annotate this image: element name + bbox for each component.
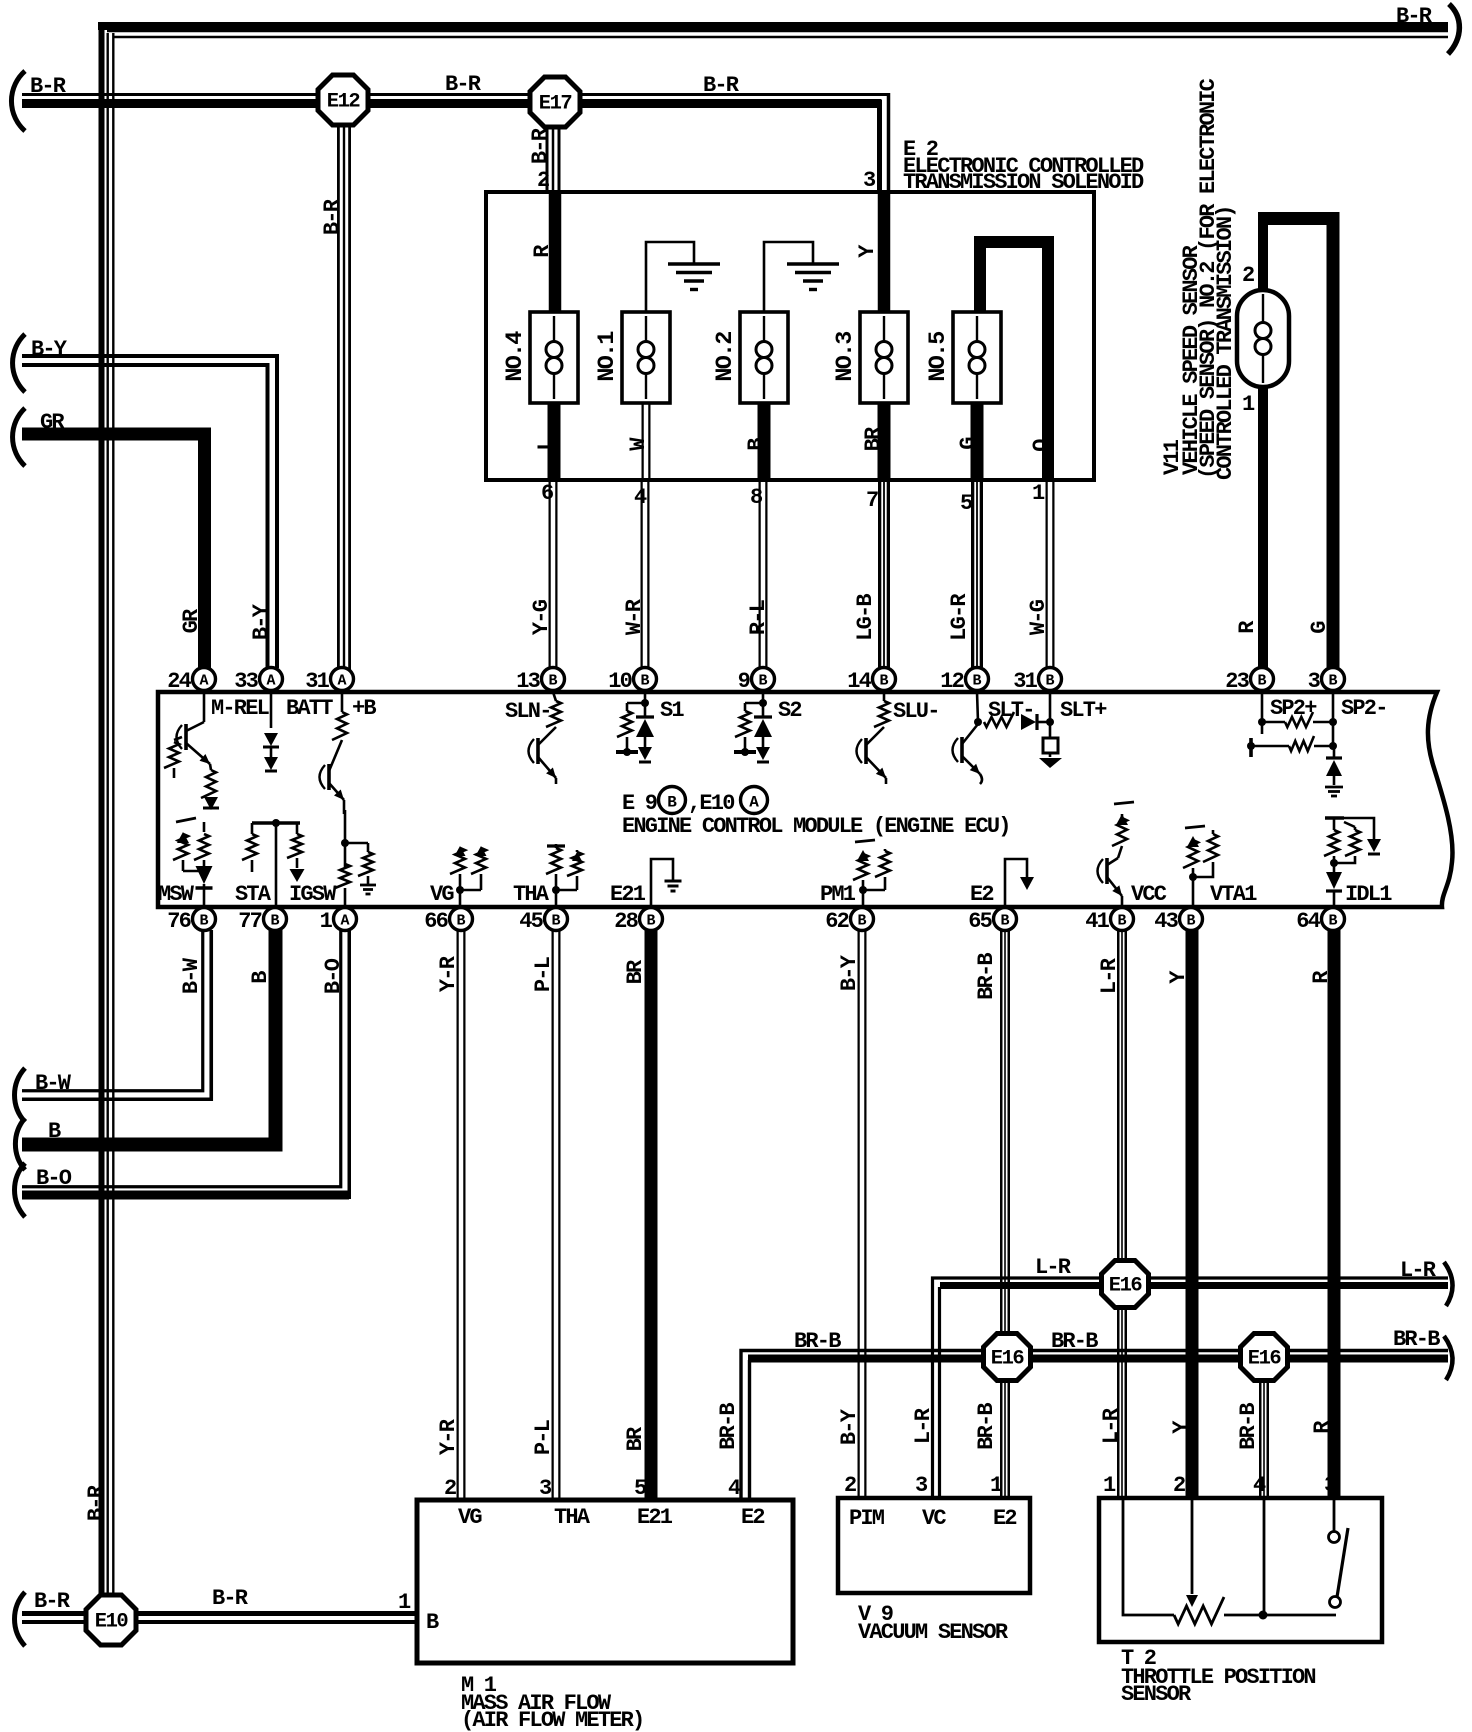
svg-text:4: 4 (1253, 1473, 1266, 1498)
svg-text:1: 1 (1103, 1473, 1116, 1498)
svg-text:B: B (1045, 673, 1054, 690)
svg-text:3: 3 (863, 168, 876, 193)
svg-text:P-L: P-L (531, 1419, 556, 1455)
svg-text:A: A (340, 913, 349, 930)
svg-text:28: 28 (614, 909, 638, 934)
svg-text:+B: +B (352, 696, 376, 721)
diode S1 (up) (644, 703, 647, 716)
wire E21 (651, 859, 673, 905)
svg-text:5: 5 (634, 1476, 647, 1501)
ECU bottom pin 77(B) (264, 908, 287, 931)
ECU bottom pin 66(B) (450, 908, 473, 931)
svg-text:BR-B: BR-B (974, 1403, 999, 1450)
wire Y-G box pin6 to ECU 13(B) (549, 480, 558, 670)
arrow IDL1 branch (1367, 839, 1381, 852)
wire B ECU 77(B) to left edge (22, 930, 276, 1145)
transistor SLN- (536, 738, 540, 764)
wiper T2 pin2 (1191, 1500, 1194, 1594)
svg-text:1: 1 (1242, 392, 1255, 417)
ECU bottom pin 43(B) (1180, 908, 1203, 931)
svg-text:R-L: R-L (746, 599, 771, 635)
svg-text:B: B (1328, 913, 1337, 930)
svg-text:BR-B: BR-B (716, 1403, 741, 1450)
arrow S1 ground (638, 747, 652, 760)
wire GR from left edge to ECU pin 24(A) (22, 434, 205, 668)
terminal bar S1 resistor (616, 750, 638, 754)
svg-text:E12: E12 (327, 91, 361, 114)
svg-text:E10: E10 (95, 1611, 129, 1634)
wire R ECU 64(B) to T2 pin3 (1328, 930, 1341, 1500)
svg-text:A: A (266, 673, 275, 690)
wire W-G box pin1 to ECU 31(B) (1046, 480, 1055, 670)
svg-text:THA: THA (513, 882, 550, 907)
svg-text:VG: VG (430, 882, 454, 907)
vehicle speed sensor V11 body (1237, 290, 1289, 387)
wire R-L box pin8 to ECU 9(B) (759, 480, 768, 670)
connector circle B (659, 787, 686, 814)
solenoid bottom wire W (NO.1) (642, 402, 651, 482)
wire THA link (556, 889, 577, 892)
wire IDL1 branch (1344, 818, 1374, 840)
svg-text:L-R: L-R (1099, 1407, 1124, 1444)
svg-text:E16: E16 (1248, 1348, 1282, 1371)
ECU top pin 9(B) (752, 668, 775, 691)
svg-text:SLU-: SLU- (893, 699, 939, 724)
ECU top pin 3(B) (1322, 668, 1345, 691)
solenoid bottom wire L (NO.4) (548, 400, 561, 482)
wire B-R top second line (107, 30, 1448, 39)
arrow VCC top (1116, 814, 1128, 825)
resistor SP2 lower (1251, 745, 1289, 748)
svg-text:VC: VC (922, 1506, 946, 1531)
throttle position sensor box T2 (1099, 1498, 1382, 1642)
arrow S2 ground (756, 747, 770, 760)
svg-text:B-R: B-R (528, 127, 553, 164)
arrow M-REL to ground (210, 798, 213, 800)
svg-text:L-R: L-R (1035, 1255, 1072, 1280)
wire SP2- drop (1332, 692, 1335, 748)
left bracket B-W (15, 1068, 25, 1122)
svg-text:BR: BR (623, 1426, 648, 1451)
wire MSW link (183, 870, 204, 873)
ECU bottom pin 62(B) (851, 908, 874, 931)
svg-text:IDL1: IDL1 (1345, 882, 1392, 907)
vacuum sensor box V9 (838, 1498, 1030, 1593)
left bracket B (15, 1118, 25, 1170)
svg-text:S2: S2 (778, 698, 801, 723)
svg-text:B-O: B-O (36, 1166, 72, 1191)
svg-text:12: 12 (940, 669, 963, 694)
arrow E2 ground (1020, 877, 1034, 890)
svg-text:3: 3 (915, 1473, 928, 1498)
svg-text:B: B (744, 438, 769, 451)
left bracket B-Y (13, 334, 25, 392)
svg-text:33: 33 (234, 669, 258, 694)
connector circle A (741, 787, 768, 814)
ECU top pin 10(B) (634, 668, 657, 691)
svg-text:4: 4 (634, 485, 647, 510)
wire T2 pin1 internal (1123, 1500, 1174, 1615)
junction S2 (762, 692, 765, 703)
svg-text:PM1: PM1 (820, 882, 856, 907)
svg-text:BR: BR (861, 426, 886, 451)
svg-text:SP2-: SP2- (1341, 696, 1387, 721)
svg-text:BR-B: BR-B (974, 953, 999, 1000)
svg-text:E16: E16 (991, 1348, 1025, 1371)
terminal bar SP2 lower left (1249, 738, 1253, 757)
svg-text:2: 2 (1173, 1473, 1185, 1498)
wire Y inside box to solenoid NO.3 (878, 190, 891, 316)
svg-text:Y-R: Y-R (436, 955, 461, 992)
continuation hook BR-B right (1444, 1336, 1453, 1380)
wire B-Y from left edge to ECU pin 33(A) (22, 356, 277, 668)
svg-text:31: 31 (305, 669, 329, 694)
resistor IGSW branch (358, 852, 373, 876)
wire BR-B horizontal from MAF E2 to right edge (741, 1351, 1448, 1501)
wire B-R left vertical run (thick line) (99, 22, 105, 1596)
svg-text:B: B (548, 673, 557, 690)
svg-text:B-R: B-R (84, 1484, 109, 1521)
svg-text:1: 1 (1032, 481, 1045, 506)
resistor S1 (627, 702, 645, 705)
svg-text:VTA1: VTA1 (1210, 882, 1257, 907)
wire T2 pin3 internal (1333, 1500, 1336, 1531)
svg-text:B: B (646, 913, 655, 930)
ECU bottom pin 76(B) (193, 908, 216, 931)
wire O jumper from NO.5 top to box pin 1 (980, 242, 1048, 482)
ECU top pin 24(A) (193, 668, 216, 691)
transistor VCC (1105, 858, 1109, 884)
solenoid NO.5 (953, 312, 1001, 403)
svg-text:B-Y: B-Y (249, 603, 274, 640)
wire LG-B box pin7 to ECU 14(B) (878, 480, 890, 670)
svg-text:E2: E2 (993, 1506, 1016, 1531)
resistor VTA1 right (1212, 830, 1215, 834)
svg-text:G: G (1307, 621, 1332, 634)
svg-text:31: 31 (1013, 669, 1037, 694)
svg-text:B: B (1257, 673, 1266, 690)
svg-text:B: B (1328, 673, 1337, 690)
resistor IDL1 main (1324, 830, 1339, 856)
resistor VCC (1121, 814, 1124, 818)
svg-text:B: B (270, 913, 279, 930)
svg-text:LG-B: LG-B (853, 594, 878, 641)
junction connector E10 (86, 1595, 136, 1645)
resistor MSW left (173, 834, 188, 860)
wire B-Y ECU 62(B) to V9 PIM (858, 930, 867, 1500)
svg-text:B-R: B-R (212, 1586, 249, 1611)
potentiometer T2 (1174, 1597, 1224, 1624)
svg-text:8: 8 (750, 485, 763, 510)
svg-text:PIM: PIM (849, 1506, 885, 1531)
ECU top pin 14(B) (873, 668, 896, 691)
ECU top pin 23(B) (1251, 668, 1274, 691)
wire PM1 link (863, 889, 885, 892)
resistor THA right (576, 850, 579, 852)
transistor SLT- (960, 737, 964, 763)
svg-text:6: 6 (541, 481, 553, 506)
ECU top pin 12(B) (966, 668, 989, 691)
solenoid bottom wire BR (NO.3) (878, 400, 891, 482)
svg-text:L-R: L-R (911, 1407, 936, 1444)
ground for NO.1 (668, 262, 720, 265)
svg-text:B-R: B-R (320, 198, 345, 235)
wire E2 (1005, 859, 1027, 905)
svg-text:E2: E2 (970, 882, 993, 907)
resistor STA left (251, 823, 254, 834)
mass air flow meter box M1 (417, 1500, 793, 1663)
svg-text:76: 76 (167, 909, 190, 934)
transistor SLU- (864, 738, 868, 764)
svg-text:IGSW: IGSW (289, 882, 337, 907)
diode MSW (196, 866, 213, 884)
wire Y ECU 43(B) to T2 pin2 (1186, 930, 1199, 1500)
svg-text:THA: THA (554, 1505, 591, 1530)
junction connector E17 (530, 77, 580, 127)
wire B-O ECU 1(A) to left edge (22, 930, 341, 1187)
svg-text:SLT+: SLT+ (1060, 698, 1107, 723)
wire L-R horizontal from V9 VC to right edge (933, 1278, 1449, 1500)
wire NO.2 ground link (764, 242, 813, 314)
svg-text:10: 10 (608, 669, 631, 694)
solenoid bottom wire G (NO.5) (971, 400, 984, 482)
wire IDL1 top bar (1325, 816, 1344, 819)
svg-text:W-R: W-R (622, 598, 647, 635)
svg-text:3: 3 (539, 1476, 552, 1501)
svg-text:B: B (758, 673, 767, 690)
resistor IGSW (335, 864, 350, 888)
svg-text:P-L: P-L (531, 956, 556, 992)
switch lever T2 (1337, 1528, 1348, 1597)
svg-text:B: B (248, 971, 273, 984)
wire BR ECU 28(B) to MAF pin5 (645, 930, 658, 1500)
solenoid NO.1 (622, 312, 670, 403)
svg-text:14: 14 (847, 669, 871, 694)
svg-text:E16: E16 (1109, 1275, 1143, 1298)
svg-text:64: 64 (1296, 909, 1320, 934)
svg-text:STA: STA (235, 882, 272, 907)
svg-text:A: A (749, 794, 759, 812)
svg-text:E17: E17 (539, 93, 572, 116)
diode SLT- (right) (1021, 714, 1036, 730)
switch contact bottom T2 (1330, 1597, 1341, 1608)
svg-text:3: 3 (1324, 1473, 1337, 1498)
svg-text:ENGINE CONTROL MODULE (ENGINE: ENGINE CONTROL MODULE (ENGINE ECU) (622, 814, 1010, 839)
svg-text:BR-B: BR-B (794, 1329, 841, 1354)
wire T2 pin4 internal (1263, 1500, 1266, 1615)
svg-text:VACUUM SENSOR: VACUUM SENSOR (858, 1620, 1009, 1645)
wire B-R left vertical run (double line) (107, 33, 115, 1596)
wire VG link (460, 889, 481, 892)
svg-text:NO.5: NO.5 (925, 332, 952, 382)
resistor S2 (745, 702, 763, 705)
svg-text:2: 2 (1242, 263, 1254, 288)
svg-text:W-G: W-G (1026, 599, 1051, 635)
svg-text:Y-G: Y-G (529, 599, 554, 635)
wire W-R box pin4 to ECU 10(B) (641, 480, 650, 670)
ground E21 (665, 880, 682, 883)
svg-text:LG-R: LG-R (947, 593, 972, 641)
svg-text:TRANSMISSION SOLENOID: TRANSMISSION SOLENOID (903, 170, 1144, 195)
wire STA rail (252, 821, 300, 824)
svg-text:B: B (667, 794, 677, 812)
svg-text:G: G (956, 437, 981, 450)
wire SLT+ pin to junction (1049, 692, 1052, 738)
svg-text:1: 1 (320, 909, 333, 934)
svg-text:(AIR FLOW METER): (AIR FLOW METER) (461, 1708, 643, 1732)
svg-text:B-R: B-R (30, 74, 67, 99)
wire B-R drop from E17 to box pin 2 (546, 125, 561, 192)
svg-text:9: 9 (738, 669, 750, 694)
junction connector E12 (318, 75, 368, 125)
svg-text:E21: E21 (637, 1505, 673, 1530)
svg-text:2: 2 (844, 1473, 856, 1498)
ECU bottom pin 1(A) (334, 908, 357, 931)
svg-text:L-R: L-R (1097, 957, 1122, 994)
svg-text:O: O (1029, 439, 1054, 452)
diode SP2- (up) (1333, 746, 1336, 757)
wire BR-B E16 to T2 pin4 (1259, 1357, 1269, 1500)
wire IGSW main (344, 810, 347, 868)
svg-text:4: 4 (728, 1476, 741, 1501)
left bracket B-R (11, 71, 25, 131)
resistor PM1 left (857, 850, 869, 861)
svg-text:L-R: L-R (1400, 1258, 1437, 1283)
continuation hook B-R top right (1448, 4, 1459, 54)
svg-text:24: 24 (167, 669, 191, 694)
svg-text:NO.3: NO.3 (832, 332, 859, 382)
junction connector E16 (BR-B right) (1241, 1334, 1288, 1381)
svg-text:B: B (551, 913, 560, 930)
resistor IDL1 parallel (1354, 827, 1357, 830)
svg-text:GR: GR (40, 410, 65, 435)
junction connector E16 (BR-B left) (984, 1334, 1031, 1381)
resistor VG right (476, 846, 487, 856)
svg-text:13: 13 (516, 669, 540, 694)
resistor SLN- (553, 692, 556, 701)
continuation hook L-R right (1444, 1262, 1453, 1306)
component box SLT+ (1043, 738, 1058, 753)
svg-text:B-R: B-R (1396, 4, 1433, 29)
arrow MSW top (177, 832, 189, 843)
svg-text:BR-B: BR-B (1393, 1327, 1440, 1352)
svg-text:2: 2 (444, 1476, 456, 1501)
svg-text:B: B (426, 1610, 439, 1635)
terminal bar S2 resistor (734, 750, 756, 754)
arrow SLT+ ground (1049, 753, 1052, 757)
svg-text:43: 43 (1154, 909, 1178, 934)
wire B-R corner drop to solenoid box pin 3 (887, 93, 891, 192)
left bracket B-R bottom (15, 1592, 25, 1646)
wire B-W ECU 76(B) to left edge (22, 930, 203, 1091)
svg-text:B-R: B-R (34, 1589, 71, 1614)
wire R V11 bottom to ECU 23(B) (1258, 384, 1268, 668)
svg-text:VG: VG (458, 1505, 482, 1530)
resistor THA left (555, 844, 558, 848)
resistor VG left (455, 846, 466, 856)
junction S1 (644, 692, 647, 703)
svg-text:B: B (1117, 913, 1126, 930)
wire B-R horizontal bus through E12/E17 (22, 93, 890, 96)
svg-text:62: 62 (825, 909, 848, 934)
svg-text:23: 23 (1225, 669, 1249, 694)
svg-text:B-Y: B-Y (837, 954, 862, 991)
junction SLT- right (1046, 718, 1054, 726)
svg-text:7: 7 (866, 488, 878, 513)
switch contact top T2 (1329, 1532, 1340, 1543)
diode BATT (270, 692, 273, 728)
svg-text:A: A (199, 673, 208, 690)
svg-text:E2: E2 (741, 1505, 764, 1530)
svg-text:5: 5 (960, 491, 973, 516)
diode S2 (up) (762, 703, 765, 716)
svg-text:B: B (857, 913, 866, 930)
svg-text:B: B (48, 1119, 61, 1144)
svg-text:65: 65 (968, 909, 992, 934)
wire G V11 top loop to ECU 3(B) (1258, 218, 1268, 292)
wire LG-R box pin5 to ECU 12(B) (971, 480, 983, 670)
svg-text:66: 66 (424, 909, 447, 934)
svg-text:SENSOR: SENSOR (1121, 1682, 1192, 1707)
svg-text:NO.1: NO.1 (594, 331, 621, 382)
svg-text:L: L (534, 438, 559, 451)
svg-text:B: B (1186, 913, 1195, 930)
wire IGSW branch (345, 842, 368, 845)
svg-text:E21: E21 (610, 882, 646, 907)
svg-text:NO.4: NO.4 (502, 331, 529, 382)
ECU bottom pin 41(B) (1111, 908, 1134, 931)
solenoid assembly box E2 (486, 192, 1094, 480)
svg-text:CONTROLLED TRANSMISSION): CONTROLLED TRANSMISSION) (1213, 206, 1238, 480)
resistor STA right (296, 823, 299, 834)
wire Y-R ECU 66(B) to MAF pin2 (457, 930, 466, 1500)
solenoid NO.4 (530, 312, 578, 403)
wire B-R bottom row through E10 to MAF (22, 1611, 417, 1616)
svg-text:B: B (456, 913, 465, 930)
svg-text:B: B (640, 673, 649, 690)
ECU bottom pin 45(B) (545, 908, 568, 931)
resistor PM1 right (884, 849, 887, 851)
svg-text:B: B (972, 673, 981, 690)
diode IDL1 (1326, 872, 1342, 889)
svg-text:BR-B: BR-B (1051, 1329, 1098, 1354)
svg-text:B: B (199, 913, 208, 930)
solenoid NO.2 (740, 312, 788, 403)
resistor M-REL base (174, 737, 182, 740)
svg-text:1: 1 (990, 1473, 1003, 1498)
resistor MSW right (203, 822, 206, 832)
ECU top pin 33(A) (260, 668, 283, 691)
ground SP2- (1325, 786, 1343, 789)
wire B-R drop from E12 to ECU pin 31(A) (337, 123, 351, 670)
resistor SP2 upper (1262, 721, 1285, 724)
svg-text:S1: S1 (660, 698, 684, 723)
svg-text:3: 3 (1308, 669, 1321, 694)
svg-text:E 9: E 9 (622, 791, 657, 816)
junction connector E16 (L-R) (1102, 1261, 1149, 1308)
svg-text:B: B (1000, 913, 1009, 930)
wire R inside box to solenooid NO.4 (549, 190, 562, 316)
svg-text:B-Y: B-Y (31, 337, 68, 362)
svg-text:B-W: B-W (35, 1071, 72, 1096)
svg-text:BR: BR (623, 959, 648, 984)
solenoid bottom wire B (NO.2) (758, 400, 771, 482)
left bracket B-O (15, 1163, 25, 1217)
junction SLT- left (977, 692, 978, 722)
transistor M-REL (203, 692, 206, 722)
svg-text:B: B (879, 673, 888, 690)
svg-text:BR-B: BR-B (1236, 1403, 1261, 1450)
